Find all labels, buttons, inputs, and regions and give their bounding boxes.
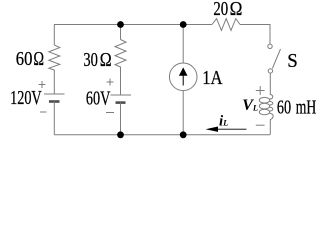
wire left to battery [53,70,55,94]
wire switch to coil [269,73,271,95]
wire branch3 bottom [182,91,184,135]
minus sign VL [256,124,265,126]
svg-text:VL: VL [242,97,258,114]
resistor R2 30ohm vertical zigzag [115,40,126,71]
resistor R1 60ohm vertical zigzag [49,45,60,70]
svg-text:30: 30 [83,49,98,71]
svg-text:60: 60 [277,97,291,119]
switch S top contact [268,44,272,48]
current iL arrow [206,127,247,132]
svg-text:1A: 1A [202,67,223,89]
wire branch2 mid [120,70,122,95]
battery E1 120V long plate [44,93,65,95]
wire branch2 top [120,25,122,40]
svg-text:60V: 60V [86,88,111,110]
current source I1 arrow [179,67,188,85]
wire bottom horizontal [54,134,270,136]
inductor L1 coil loop 2 [259,103,269,109]
current source I1 circle [169,63,197,91]
inductor L1 coil loop 3 [259,109,269,115]
battery E2 60V long plate [111,94,132,96]
minus sign battery E2 [106,112,114,114]
wire branch2 bottom [120,103,122,135]
battery E2 60V short plate [116,101,126,104]
svg-text:Ω: Ω [230,0,243,20]
node junction dot bottom branch2 [117,131,124,138]
switch S bottom contact [268,69,272,73]
switch S blade [272,49,280,68]
wire top left horizontal [54,24,212,26]
wire branch3 top [182,25,184,64]
minus sign battery E1 [40,111,47,113]
inductor L1 right strand [270,95,273,135]
plus sign battery E2 [107,79,114,86]
wire top right to corner [240,25,270,45]
inductor L1 coil loop 1 [259,97,269,103]
plus sign battery E1 [39,81,46,88]
node junction dot bottom branch3 [180,131,187,138]
svg-text:S: S [287,50,298,72]
svg-text:Ω: Ω [33,48,44,70]
wire left battery to bottom [53,102,55,135]
svg-text:iL: iL [219,113,228,129]
svg-text:Ω: Ω [100,49,112,71]
node junction dot top branch3 [180,21,187,28]
battery E1 120V short plate [49,100,60,103]
svg-text:20: 20 [213,0,228,20]
node junction dot top branch2 [117,21,124,28]
svg-text:120V: 120V [10,87,42,109]
svg-text:mH: mH [296,97,317,119]
wire left vertical upper [53,25,55,46]
svg-text:60: 60 [16,48,33,70]
plus sign VL [256,86,265,95]
resistor R3 20ohm horizontal zigzag [212,19,240,31]
